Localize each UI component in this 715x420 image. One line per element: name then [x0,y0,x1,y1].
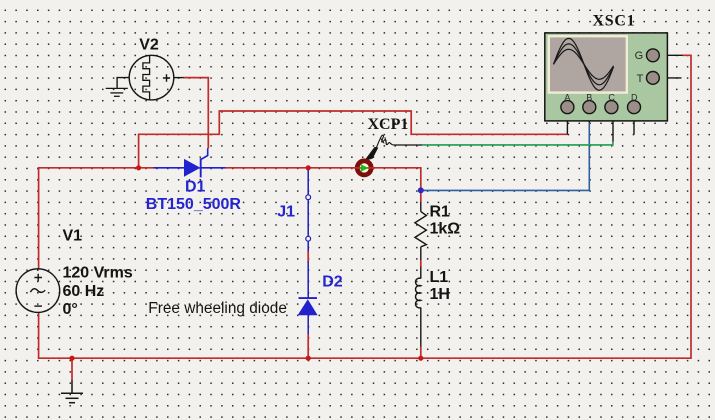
node: scope terminal A [561,101,574,114]
svg-text:BT150_500R: BT150_500R [146,196,242,213]
inductor L1 [416,267,421,347]
node: scope terminal D [628,101,641,114]
svg-text:0°: 0° [63,301,78,318]
wire: scope C black stub [612,113,614,142]
svg-text:D: D [631,92,638,102]
wire: L1 bottom red piece [420,346,422,358]
wire: trigger net from gate junction to scope A [139,111,568,168]
resistor R1 [415,202,427,260]
node: scope terminal C [605,101,618,114]
svg-text:XCP1: XCP1 [368,116,409,133]
wire: D2 bottom red piece [307,334,309,358]
wire: scope T black stub (unconnected) [659,77,681,79]
wire: D1 cathode to R1 branch corner [225,168,421,203]
wire: scope B net (blue) [421,122,590,190]
wire: left rail V1 bottom to bottom-left corner [38,312,40,358]
svg-text:J1: J1 [277,204,295,221]
svg-text:120 Vrms: 120 Vrms [63,264,133,281]
svg-text:T: T [637,73,644,85]
wire: scope D black stub (unconnected) [633,113,635,134]
probe XCP1 current probe [354,135,422,175]
node: junction gate/anode on main wire [136,165,141,170]
svg-text:L1: L1 [430,269,449,286]
wire: V2 right lead [174,77,184,79]
svg-text:60 Hz: 60 Hz [63,283,105,300]
svg-text:G: G [635,50,644,62]
svg-text:Free wheeling diode: Free wheeling diode [148,300,287,317]
svg-text:B: B [586,92,592,102]
node: scope terminal B [583,101,596,114]
svg-text:C: C [608,92,615,102]
svg-text:XSC1: XSC1 [593,13,636,30]
wire: D2 branch top red piece [307,167,309,170]
svg-text:A: A [564,92,570,102]
ground GND1 (V1 bottom rail) [61,380,83,403]
node: junction D2 branch on bottom rail [306,356,311,361]
transistor V2 pulse source circle [117,55,174,100]
transistor D1 SCR BT150_500R [153,148,225,177]
node: junction D2 branch on main wire [306,165,311,170]
svg-text:V2: V2 [139,37,159,54]
wire: R1-L1 red piece [420,260,422,267]
svg-text:R1: R1 [430,203,451,220]
capacitor V1 AC source circle [16,269,60,313]
node: junction L1 branch on bottom rail [418,356,423,361]
node: junction ground on bottom rail [69,356,74,361]
node: J1 terminal circle bottom [306,236,311,241]
wire: scope A black stub [566,113,568,134]
wire: ground stub at bottom rail [71,358,73,380]
ground GND2 (V2) [106,88,128,96]
wire: right rail up to scope G [682,55,691,359]
op-amp XSC1 oscilloscope body [545,33,668,121]
svg-text:1kΩ: 1kΩ [430,221,461,238]
wire: left rail from top corner down to V1 top [38,168,40,269]
node: junction scope B tap (blue) [418,187,424,193]
svg-text:D2: D2 [322,274,343,291]
svg-text:V1: V1 [63,227,83,244]
svg-text:1H: 1H [430,286,450,303]
node: scope terminal G [647,49,660,62]
wire: V2 output to D1 gate [184,78,209,149]
svg-text:D1: D1 [185,179,206,196]
diode D2 free wheeling [298,170,318,334]
wire: scope C net (green) [421,142,613,145]
node: scope terminal T [647,72,660,85]
wire: bottom ground rail [38,357,691,359]
wire: main top net, V1 to D1 anode [38,167,154,169]
node: J1 terminal circle top [306,195,311,200]
wire: scope B black stub [588,113,590,122]
wire: scope G black stub [659,54,682,56]
wire: J1 to D2 red piece [307,251,309,262]
